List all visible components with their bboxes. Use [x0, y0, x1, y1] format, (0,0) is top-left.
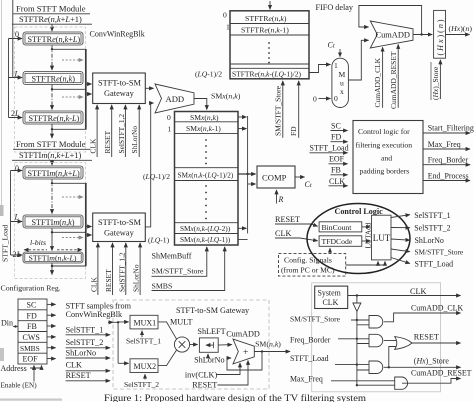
svg-text:inv(CLK): inv(CLK) — [185, 370, 218, 379]
svg-text:and: and — [381, 154, 392, 163]
svg-text:Ct: Ct — [305, 180, 312, 189]
svg-text:SelSTFT_1,2: SelSTFT_1,2 — [117, 252, 126, 292]
svg-text:CLK: CLK — [275, 229, 291, 238]
svg-text:SelSTFT_1: SelSTFT_1 — [414, 211, 450, 220]
svg-text:SMx(n,k): SMx(n,k) — [190, 113, 219, 122]
svg-text:Ct: Ct — [328, 40, 335, 49]
svg-text:+: + — [243, 348, 248, 358]
svg-text:STFTRe(n,k+L+1): STFTRe(n,k+L+1) — [19, 15, 82, 24]
svg-text:STFT-to-SM Gateway: STFT-to-SM Gateway — [176, 306, 250, 315]
svg-text:MUX2: MUX2 — [134, 362, 157, 371]
svg-text:Config. Signals: Config. Signals — [284, 256, 332, 265]
svg-text:ShLorNo: ShLorNo — [66, 348, 96, 357]
svg-text:R: R — [278, 195, 284, 204]
svg-text:(LQ-1): (LQ-1) — [148, 236, 170, 245]
svg-text:ShLorNo: ShLorNo — [130, 126, 139, 154]
svg-text:Enable (EN): Enable (EN) — [1, 382, 38, 390]
svg-text:1: 1 — [168, 125, 172, 134]
svg-text:(LQ-1)/2: (LQ-1)/2 — [195, 70, 222, 79]
svg-text:SMBS: SMBS — [152, 281, 173, 290]
svg-text:RESET: RESET — [414, 332, 439, 341]
svg-text:Start_Filtering: Start_Filtering — [428, 123, 474, 132]
svg-text:FB: FB — [27, 322, 37, 331]
svg-text:LUT: LUT — [373, 233, 391, 243]
svg-text:SMx(n,k-(LQ-2)): SMx(n,k-(LQ-2)) — [180, 224, 231, 233]
svg-text:1: 1 — [226, 23, 230, 32]
svg-text:filtering execution: filtering execution — [356, 141, 413, 150]
svg-text:End_Process: End_Process — [428, 171, 469, 180]
svg-text:ConvWinRegBlk: ConvWinRegBlk — [66, 310, 123, 319]
svg-text:SelSTFT_1: SelSTFT_1 — [126, 337, 161, 346]
svg-text:STFTRe(n,k): STFTRe(n,k) — [245, 14, 287, 23]
svg-text:SMx(n,k-1): SMx(n,k-1) — [186, 124, 221, 133]
svg-text:STFTRe(n,k-(LQ-1)/2): STFTRe(n,k-(LQ-1)/2) — [232, 69, 302, 78]
svg-text:Freq_Border: Freq_Border — [290, 336, 331, 345]
svg-text:Address: Address — [1, 364, 27, 373]
svg-text:SMBS: SMBS — [20, 344, 40, 353]
svg-text:SelSTFT_2: SelSTFT_2 — [124, 380, 159, 389]
svg-text:STFT_Load: STFT_Load — [415, 259, 454, 268]
svg-text:ShMemBuff: ShMemBuff — [152, 251, 192, 260]
svg-text:padding borders: padding borders — [360, 167, 410, 176]
svg-text:SM/STFT_Store: SM/STFT_Store — [273, 85, 282, 136]
svg-text:CumADD_RESET: CumADD_RESET — [389, 51, 398, 109]
svg-text:0: 0 — [15, 164, 19, 173]
svg-text:FD: FD — [331, 133, 341, 142]
svg-text:Gateway: Gateway — [104, 89, 135, 98]
svg-text:SelSTFT_2: SelSTFT_2 — [414, 224, 450, 233]
svg-text:CLK: CLK — [323, 298, 339, 307]
svg-text:STFTIm(n,k+L): STFTIm(n,k+L) — [28, 169, 80, 178]
svg-text:CumADD_CLK: CumADD_CLK — [411, 303, 463, 312]
svg-text:CumADD_RESET: CumADD_RESET — [411, 369, 472, 378]
svg-text:CLK: CLK — [89, 277, 98, 292]
svg-text:(Hx)_Store: (Hx)_Store — [414, 357, 450, 366]
svg-text:MUX1: MUX1 — [134, 319, 157, 328]
svg-text:RESET: RESET — [104, 269, 113, 292]
svg-text:STFTIm(n,k): STFTIm(n,k) — [32, 218, 75, 227]
svg-text:FD: FD — [289, 126, 298, 136]
svg-text:STFTIm(n,k-L): STFTIm(n,k-L) — [29, 253, 77, 262]
svg-text:(Hx)(n): (Hx)(n) — [449, 24, 473, 33]
svg-text:ShLorNo: ShLorNo — [415, 236, 444, 245]
svg-text:2L: 2L — [11, 109, 20, 118]
svg-text:SMx(n,k-(LQ-1)/2): SMx(n,k-(LQ-1)/2) — [178, 171, 234, 180]
svg-text:ShLorNo: ShLorNo — [132, 264, 141, 292]
svg-text:SM/STFT_Store: SM/STFT_Store — [152, 266, 205, 275]
svg-text:Gateway: Gateway — [104, 229, 135, 238]
svg-text:SM(n,k): SM(n,k) — [255, 340, 281, 349]
svg-text:(Hx)(n): (Hx)(n) — [436, 18, 445, 56]
svg-text:SC: SC — [331, 121, 341, 130]
svg-text:0: 0 — [15, 30, 19, 39]
svg-text:CLK: CLK — [410, 287, 426, 296]
svg-text:RESET: RESET — [192, 381, 217, 390]
svg-text:Control Logic: Control Logic — [335, 207, 384, 216]
svg-text:SMx(n,k): SMx(n,k) — [211, 91, 241, 100]
svg-text:1: 1 — [334, 61, 338, 70]
svg-text:L: L — [14, 213, 20, 222]
svg-text:CumADD_CLK: CumADD_CLK — [373, 57, 382, 107]
svg-text:Max_Freq: Max_Freq — [290, 374, 323, 383]
svg-text:STFTRe(n,k): STFTRe(n,k) — [32, 74, 76, 83]
svg-text:CLK: CLK — [89, 138, 98, 153]
svg-text:STFTIm(n,k+L+1): STFTIm(n,k+L+1) — [19, 151, 82, 160]
svg-text:STFTRe(n,k-1): STFTRe(n,k-1) — [241, 25, 289, 34]
svg-text:SMx(n,k-(LQ-1)): SMx(n,k-(LQ-1)) — [180, 235, 231, 244]
svg-text:FB: FB — [331, 166, 341, 175]
svg-text:l-bits: l-bits — [30, 238, 46, 247]
svg-text:From STFT Module: From STFT Module — [16, 139, 86, 149]
svg-text:SelSTFT_1: SelSTFT_1 — [66, 325, 104, 334]
svg-text:Control logic for: Control logic for — [358, 127, 410, 136]
svg-text:ADD: ADD — [166, 94, 185, 104]
svg-text:RESET: RESET — [66, 371, 91, 380]
svg-text:BinCount: BinCount — [322, 223, 353, 232]
svg-text:ShLorNo: ShLorNo — [194, 355, 224, 364]
svg-text:(LQ-1)/2: (LQ-1)/2 — [143, 172, 170, 181]
svg-text:RESET: RESET — [103, 130, 112, 153]
svg-text:System: System — [318, 288, 342, 297]
svg-text:STFT_Load: STFT_Load — [290, 354, 329, 363]
svg-text:RESET: RESET — [275, 215, 300, 224]
svg-text:Max_Freq: Max_Freq — [428, 140, 461, 149]
svg-text:FIFO delay: FIFO delay — [316, 3, 354, 12]
svg-text:Din: Din — [1, 319, 13, 328]
svg-text:0: 0 — [167, 113, 171, 122]
svg-text:COMP: COMP — [262, 173, 287, 183]
svg-text:Configuration Reg.: Configuration Reg. — [1, 284, 61, 293]
svg-text:(Hx)_Store: (Hx)_Store — [431, 66, 440, 100]
svg-text:STFTRe(n,k+L): STFTRe(n,k+L) — [28, 35, 81, 44]
svg-text:STFT_Load: STFT_Load — [310, 144, 349, 153]
svg-text:Figure 1: Proposed hardware de: Figure 1: Proposed hardware design of th… — [104, 393, 366, 402]
svg-text:CumADD: CumADD — [226, 329, 260, 338]
svg-text:0: 0 — [223, 11, 227, 20]
svg-text:ShLEFT: ShLEFT — [197, 327, 225, 336]
svg-text:EOF: EOF — [329, 155, 345, 164]
svg-text:CLK: CLK — [66, 360, 82, 369]
svg-text:CLK: CLK — [329, 177, 345, 186]
svg-text:SelSTFT_2: SelSTFT_2 — [66, 338, 104, 347]
svg-text:From STFT Module: From STFT Module — [16, 4, 86, 14]
svg-text:TFDCode: TFDCode — [322, 237, 353, 246]
svg-text:EOF: EOF — [23, 355, 39, 364]
svg-text:x: x — [340, 87, 344, 96]
svg-text:CumADD: CumADD — [376, 30, 410, 39]
svg-text:MULT: MULT — [170, 317, 192, 326]
svg-text:SM/STFT_Store: SM/STFT_Store — [415, 247, 464, 256]
svg-text:SC: SC — [27, 301, 37, 310]
svg-text:ConvWinRegBlk: ConvWinRegBlk — [90, 30, 145, 39]
svg-text:FD: FD — [27, 311, 37, 320]
svg-text:STFTRe(n,k-L): STFTRe(n,k-L) — [29, 114, 80, 123]
svg-text:SelSTFT_1,2: SelSTFT_1,2 — [117, 114, 126, 154]
svg-text:STFT-to-SM: STFT-to-SM — [98, 79, 142, 88]
svg-text:Freq_Border: Freq_Border — [428, 156, 469, 165]
svg-text:0: 0 — [313, 95, 317, 104]
svg-text:STFT-to-SM: STFT-to-SM — [98, 218, 142, 227]
svg-text:STFT_Load: STFT_Load — [1, 225, 10, 262]
svg-text:CWS: CWS — [23, 333, 40, 342]
svg-text:0: 0 — [334, 94, 338, 103]
svg-text:SM/STFT_Store: SM/STFT_Store — [290, 314, 341, 323]
svg-text:2L: 2L — [13, 250, 22, 259]
